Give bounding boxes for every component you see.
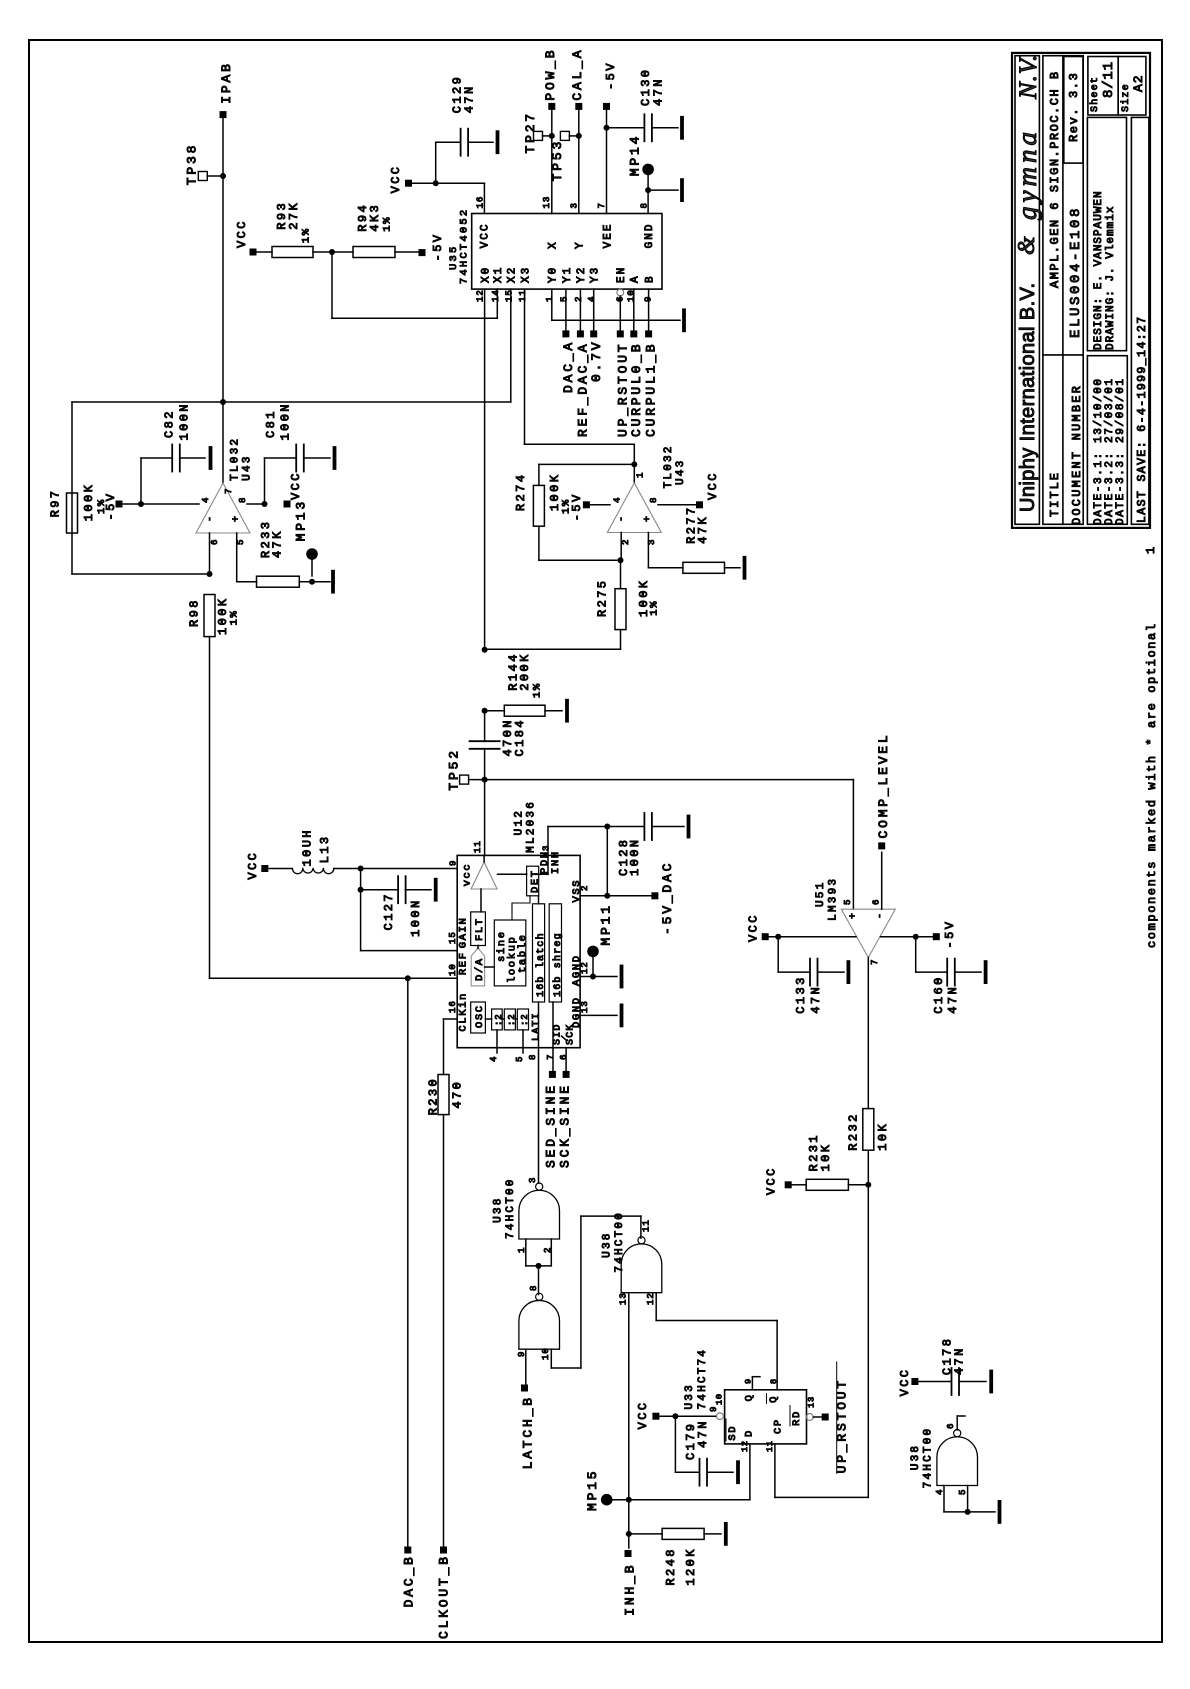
svg-text:DAC_B: DAC_B <box>402 1554 417 1607</box>
svg-text:A2: A2 <box>1131 74 1146 92</box>
svg-text:2: 2 <box>621 539 631 545</box>
svg-text:R98: R98 <box>188 598 202 627</box>
testpoint TP38 <box>198 172 207 181</box>
ground <box>704 1533 721 1535</box>
svg-text:A: A <box>630 274 642 283</box>
svg-text:U43: U43 <box>675 459 687 485</box>
testpoint TP27 <box>534 131 543 140</box>
svg-text:DATE-3.3: 29/08/01: DATE-3.3: 29/08/01 <box>1115 377 1127 525</box>
svg-text:200K: 200K <box>518 652 532 690</box>
svg-text:X: X <box>548 240 560 249</box>
svg-text:4: 4 <box>489 1056 499 1062</box>
capacitor C179 <box>674 1416 676 1472</box>
resistor R230 <box>438 1075 449 1115</box>
svg-text:VEE: VEE <box>602 222 614 248</box>
svg-text:47N: 47N <box>953 1346 967 1375</box>
svg-text:13: 13 <box>542 196 552 209</box>
svg-text:7: 7 <box>224 488 234 494</box>
wire pin8 LATI <box>538 1002 540 1183</box>
wire <box>247 503 265 505</box>
inductor L13 VCC <box>261 865 268 872</box>
capacitor C127 <box>360 869 362 890</box>
wire pin2 VSS <box>580 895 655 897</box>
svg-text:7: 7 <box>870 959 880 965</box>
wire <box>71 402 73 574</box>
resistor R93 <box>272 247 313 258</box>
svg-text:3: 3 <box>528 1177 538 1183</box>
svg-text:Sheet: Sheet <box>1089 76 1101 112</box>
net DAC_A pin5 <box>565 289 567 330</box>
svg-text:OSC: OSC <box>474 1004 486 1028</box>
svg-text:7: 7 <box>546 1054 556 1060</box>
power flag VCC <box>250 249 257 256</box>
net CLKOUT_B <box>440 1547 447 1554</box>
measure point MP14 pin8 <box>642 164 654 176</box>
svg-text:5: 5 <box>236 539 246 545</box>
svg-text:11: 11 <box>473 840 483 853</box>
resistor R231 <box>806 1179 848 1190</box>
svg-text:MP11: MP11 <box>599 903 614 945</box>
svg-text:SCK: SCK <box>566 1023 577 1045</box>
D/A box <box>471 948 484 986</box>
measure point MP13 <box>306 548 318 560</box>
svg-text:C184: C184 <box>513 718 527 756</box>
svg-text:74HCT00: 74HCT00 <box>614 1211 626 1273</box>
svg-text:47K: 47K <box>696 515 710 544</box>
ground <box>818 971 844 973</box>
svg-text:R232: R232 <box>847 1112 861 1150</box>
svg-text:VCC: VCC <box>765 1166 779 1195</box>
svg-text::2: :2 <box>520 1014 530 1026</box>
svg-text:MP13: MP13 <box>294 499 309 541</box>
resistor R248 <box>629 1533 662 1535</box>
svg-text:10K: 10K <box>876 1122 890 1151</box>
svg-text:74HCT4052: 74HCT4052 <box>459 208 471 285</box>
svg-text:gymna: gymna <box>1012 128 1042 220</box>
svg-text:15: 15 <box>448 931 458 944</box>
svg-text:47N: 47N <box>652 77 666 106</box>
svg-text:R97: R97 <box>49 489 63 518</box>
svg-text:+: + <box>232 516 243 522</box>
nand U38b <box>519 1300 560 1349</box>
capacitor C128 <box>607 826 644 828</box>
svg-text:VCC: VCC <box>289 471 303 500</box>
wire inputs to ground <box>943 1486 945 1512</box>
svg-text:14: 14 <box>491 289 501 302</box>
svg-text:8: 8 <box>640 202 650 208</box>
svg-text:CURPUL1_B: CURPUL1_B <box>644 342 659 437</box>
power flag -5V <box>395 251 418 253</box>
svg-text:-: - <box>617 516 628 522</box>
svg-text:components marked with * are o: components marked with * are optional <box>1145 622 1159 948</box>
svg-text:X0: X0 <box>481 266 493 283</box>
svg-text:15: 15 <box>505 289 515 302</box>
svg-text:2: 2 <box>574 296 584 302</box>
svg-text:3: 3 <box>542 845 552 851</box>
ground <box>652 127 678 129</box>
resistor R277 <box>683 562 725 573</box>
svg-text:9: 9 <box>449 860 459 866</box>
FLT box <box>471 912 486 946</box>
capacitor C184 <box>484 711 486 742</box>
wire pin3 <box>647 533 649 568</box>
ground <box>620 1005 624 1025</box>
wire pin13 DGND <box>580 1014 617 1016</box>
svg-text:5: 5 <box>515 1056 525 1062</box>
svg-text:LAST SAVE: 6-4-1999_14:27: LAST SAVE: 6-4-1999_14:27 <box>1136 315 1149 523</box>
ground <box>405 889 431 891</box>
svg-text:VCC: VCC <box>898 1368 912 1397</box>
svg-text:-: - <box>876 913 887 919</box>
svg-text:REF: REF <box>458 951 470 975</box>
svg-text:470: 470 <box>451 1080 465 1109</box>
svg-text:TP53: TP53 <box>550 139 565 181</box>
svg-text:INH_B: INH_B <box>623 1563 638 1616</box>
svg-text:VCC: VCC <box>480 222 492 248</box>
svg-text:MP14: MP14 <box>628 134 643 176</box>
svg-text:TITLE: TITLE <box>1048 471 1062 517</box>
svg-text:10K: 10K <box>819 1143 833 1172</box>
svg-text:Y0: Y0 <box>548 266 560 283</box>
svg-text:INH: INH <box>550 850 562 874</box>
svg-text:table: table <box>517 933 529 973</box>
capacitor C129 <box>435 142 437 183</box>
svg-text:120K: 120K <box>684 1547 698 1585</box>
svg-text:R274: R274 <box>514 473 528 511</box>
power flag -5V pin7 <box>603 103 610 110</box>
capacitor C178 <box>951 1368 953 1395</box>
net COMP_LEVEL <box>881 852 883 909</box>
svg-text:C127: C127 <box>382 892 396 930</box>
svg-text:1: 1 <box>1144 547 1158 554</box>
svg-text:Q: Q <box>768 1395 780 1403</box>
svg-text:R230: R230 <box>427 1077 441 1115</box>
op-amp U43b TL032 <box>607 483 661 533</box>
svg-text:VCC: VCC <box>747 913 761 942</box>
ground <box>725 567 741 569</box>
svg-text:X1: X1 <box>493 266 505 283</box>
op-amp U43a TL032 <box>196 483 250 533</box>
svg-text:CLKOUT_B: CLKOUT_B <box>437 1554 452 1639</box>
svg-text:10: 10 <box>448 963 458 976</box>
svg-text:CP: CP <box>773 1418 785 1434</box>
svg-text:-5V: -5V <box>570 492 584 521</box>
svg-text:1%: 1% <box>532 682 544 698</box>
ground <box>648 189 678 191</box>
svg-text:C82: C82 <box>163 409 177 438</box>
svg-text:16b shreg: 16b shreg <box>552 932 564 997</box>
net -5V_DAC <box>651 892 658 899</box>
svg-text::2: :2 <box>494 1014 504 1026</box>
svg-text:100N: 100N <box>279 402 293 440</box>
svg-text:100N: 100N <box>178 402 192 440</box>
testpoint TP52 <box>460 775 469 784</box>
svg-text:12: 12 <box>740 1440 750 1452</box>
svg-text:DGND: DGND <box>571 996 583 1028</box>
svg-text:Y2: Y2 <box>576 266 588 283</box>
wire pin2 <box>620 533 622 561</box>
svg-text:13: 13 <box>619 1292 629 1305</box>
svg-text:U51: U51 <box>815 881 827 907</box>
svg-text:0.7V: 0.7V <box>589 340 604 382</box>
wire X0 <box>484 289 486 650</box>
svg-text:47K: 47K <box>271 529 285 558</box>
wire pin6 <box>209 533 211 574</box>
measure point MP11 <box>587 946 599 958</box>
resistor R232 <box>863 1109 874 1151</box>
ground <box>304 457 330 459</box>
svg-text:6: 6 <box>872 899 882 905</box>
power flag VCC <box>785 1181 792 1188</box>
IC U35 74HCT4052 <box>472 214 662 290</box>
svg-text:9: 9 <box>709 1406 719 1412</box>
svg-text:13: 13 <box>807 1396 817 1408</box>
power flag VCC <box>284 501 291 508</box>
svg-text:Q: Q <box>744 1393 756 1401</box>
sine lookup table box <box>494 920 526 986</box>
svg-text:-5V: -5V <box>604 61 618 90</box>
svg-text:47N: 47N <box>463 84 477 113</box>
svg-text:11: 11 <box>518 289 528 302</box>
svg-text:47N: 47N <box>809 985 823 1014</box>
svg-text:DOCUMENT NUMBER: DOCUMENT NUMBER <box>1070 384 1084 525</box>
svg-text:C160: C160 <box>932 975 946 1013</box>
svg-text:5: 5 <box>958 1489 968 1495</box>
resistor R233 <box>257 576 300 587</box>
svg-text:B: B <box>645 274 657 283</box>
net UP_RSTOUT pin6 EN <box>617 289 624 296</box>
net 0.7V pin4 <box>593 289 595 330</box>
svg-text:AMPL.GEN 6 SIGN.PROC.CH B: AMPL.GEN 6 SIGN.PROC.CH B <box>1048 70 1062 288</box>
net CAL_A pin3 <box>575 103 582 110</box>
svg-text:CURPUL0_B: CURPUL0_B <box>629 342 644 437</box>
capacitor C133 <box>777 937 779 972</box>
wire pin3 PDN C128 <box>547 827 549 856</box>
svg-text:U12: U12 <box>513 809 525 835</box>
wire Y0 to ground <box>551 289 553 320</box>
wire output pin7 <box>867 958 869 1109</box>
power flag -5V <box>583 501 590 508</box>
svg-text:1%: 1% <box>382 216 394 232</box>
wire to U33 D <box>629 1499 750 1501</box>
capacitor C81 <box>264 458 266 504</box>
svg-text:1%: 1% <box>649 600 661 616</box>
net SED_SINE pin7 SID <box>552 1002 554 1070</box>
svg-text:+: + <box>849 913 860 919</box>
svg-text:C81: C81 <box>264 409 278 438</box>
ground <box>331 572 335 592</box>
comparator U51 LM393 <box>841 909 895 957</box>
svg-text:1: 1 <box>636 472 646 478</box>
svg-text:4: 4 <box>613 497 623 503</box>
svg-text:EN: EN <box>616 266 628 283</box>
svg-text:-: - <box>206 516 217 522</box>
svg-text:8: 8 <box>528 1054 538 1060</box>
svg-text::2: :2 <box>507 1014 517 1026</box>
svg-text:8: 8 <box>238 497 248 503</box>
ground <box>707 1471 733 1473</box>
svg-text:DRAWING: J. Vlemmix: DRAWING: J. Vlemmix <box>1105 206 1117 350</box>
svg-text:N.V.: N.V. <box>1015 54 1042 100</box>
svg-text:74HCT00: 74HCT00 <box>922 1427 934 1489</box>
svg-text:-5V: -5V <box>104 492 118 521</box>
svg-text:1%: 1% <box>301 227 313 243</box>
wire <box>590 504 610 506</box>
ground <box>468 141 493 143</box>
resistor R275 <box>620 560 622 589</box>
svg-text:U38: U38 <box>910 1444 922 1470</box>
svg-text:GND: GND <box>644 222 656 248</box>
svg-text:1%: 1% <box>229 610 241 626</box>
svg-text:VCC: VCC <box>636 1400 650 1429</box>
svg-text:TP27: TP27 <box>523 111 538 153</box>
svg-text:VCC: VCC <box>235 219 249 248</box>
svg-text:SD: SD <box>727 1425 739 1441</box>
svg-text:12: 12 <box>475 289 485 302</box>
svg-text:8: 8 <box>649 497 659 503</box>
svg-text:-5V: -5V <box>943 920 957 949</box>
svg-text:R248: R248 <box>664 1547 678 1585</box>
svg-text:10UH: 10UH <box>301 828 315 866</box>
net UP_RSTOUT <box>813 1416 821 1418</box>
ground <box>955 971 981 973</box>
wire X3 <box>524 289 526 444</box>
svg-text:vcc: vcc <box>462 863 474 887</box>
testpoint TP53 <box>560 131 569 140</box>
svg-text:U33: U33 <box>684 1383 696 1409</box>
svg-text:5: 5 <box>559 296 569 302</box>
svg-text:MP15: MP15 <box>585 1469 600 1511</box>
resistor R144 <box>485 710 505 712</box>
ground <box>620 967 624 987</box>
svg-text:12: 12 <box>646 1292 656 1305</box>
svg-text:10: 10 <box>627 289 637 302</box>
svg-text:LM393: LM393 <box>827 877 839 921</box>
power flag VCC pin8 <box>762 933 769 940</box>
svg-text:LATCH_B: LATCH_B <box>521 1395 536 1469</box>
svg-text:CLKin: CLKin <box>458 992 470 1032</box>
svg-text:ELUS004-E108: ELUS004-E108 <box>1068 206 1084 338</box>
net CURPUL0_B pin10 <box>633 289 635 330</box>
ground <box>652 826 684 828</box>
svg-text:CAL_A: CAL_A <box>570 48 585 101</box>
wire pin16 CLKin <box>444 1018 458 1020</box>
svg-text:Uniphy International B.V.: Uniphy International B.V. <box>1017 283 1039 512</box>
IC U12 ML2036 <box>457 855 580 1047</box>
wire <box>209 637 211 979</box>
resistor R94 <box>353 247 395 258</box>
svg-text:7: 7 <box>597 202 607 208</box>
svg-text:TP38: TP38 <box>185 143 200 185</box>
svg-text:VCC: VCC <box>389 165 403 194</box>
svg-text:8: 8 <box>529 1285 539 1291</box>
svg-text:POW_B: POW_B <box>543 48 558 101</box>
wire node out1 <box>72 401 511 403</box>
svg-text:16b latch: 16b latch <box>535 932 547 997</box>
svg-text:AGND: AGND <box>571 954 583 986</box>
OSC box <box>471 1002 486 1033</box>
svg-text:&: & <box>1014 236 1040 255</box>
svg-text:8/11: 8/11 <box>1101 61 1117 98</box>
net IPAB <box>220 111 227 118</box>
svg-text:FLT: FLT <box>474 917 486 941</box>
svg-text:6: 6 <box>559 1054 569 1060</box>
svg-text:ML2036: ML2036 <box>525 800 537 853</box>
svg-text:COMP_LEVEL: COMP_LEVEL <box>876 732 891 838</box>
svg-text:100N: 100N <box>628 838 642 876</box>
buffer triangle <box>471 862 497 889</box>
resistor R274 <box>539 463 634 465</box>
ground <box>959 1381 986 1383</box>
net SCK_SINE pin6 SCK <box>565 1048 567 1071</box>
svg-text:SED_SINE: SED_SINE <box>544 1083 559 1168</box>
wire pin10 to U38c out <box>550 1349 552 1368</box>
wire <box>525 1239 527 1266</box>
power flag -5V <box>116 501 123 508</box>
svg-text:D/A: D/A <box>474 957 486 981</box>
net DAC_B <box>404 1547 411 1554</box>
svg-text:74HCT00: 74HCT00 <box>505 1177 517 1239</box>
power flag VCC C178 <box>911 1378 918 1385</box>
net LATCH_B <box>525 1349 527 1384</box>
svg-text:X3: X3 <box>520 266 532 283</box>
svg-text:DAC_A: DAC_A <box>561 340 576 393</box>
svg-text:27K: 27K <box>287 201 301 230</box>
svg-text:VSS: VSS <box>571 879 583 903</box>
svg-text:RD: RD <box>791 1410 803 1426</box>
svg-text:C133: C133 <box>794 975 808 1013</box>
16b latch box <box>533 904 545 1002</box>
power flag VCC SD pin10 <box>652 1413 659 1420</box>
svg-text:VCC: VCC <box>246 851 260 880</box>
svg-text:TP52: TP52 <box>447 748 462 790</box>
svg-text:DESIGN: E. VANSPAUWEN: DESIGN: E. VANSPAUWEN <box>1093 190 1105 350</box>
svg-text:11: 11 <box>642 1219 652 1232</box>
capacitor C160 <box>915 937 917 972</box>
divider boxes <box>492 1009 503 1030</box>
svg-text:47N: 47N <box>946 985 960 1014</box>
svg-text:VCC: VCC <box>706 471 720 500</box>
wire pin12 AGND <box>580 976 617 978</box>
wire DAC_B <box>407 978 409 1546</box>
svg-text:L13: L13 <box>318 834 332 863</box>
wire to comparator <box>485 779 854 781</box>
svg-text:U43: U43 <box>241 454 253 480</box>
svg-text:Rev. 3.3: Rev. 3.3 <box>1067 72 1081 142</box>
resistor R97 <box>67 493 78 533</box>
svg-text:10: 10 <box>715 1393 725 1405</box>
wire pin12 from U33 <box>655 1293 657 1321</box>
svg-text:LATI: LATI <box>532 1012 543 1041</box>
16b shreg box <box>549 904 561 1002</box>
svg-text:Y3: Y3 <box>590 266 602 283</box>
capacitor C82 <box>140 458 142 504</box>
title block <box>1012 53 1150 528</box>
svg-text:R275: R275 <box>596 579 610 617</box>
svg-text:SID: SID <box>553 1023 564 1045</box>
svg-text:IPAB: IPAB <box>219 61 234 103</box>
svg-text:1: 1 <box>545 296 555 302</box>
wire X1 net <box>331 252 333 318</box>
svg-text:GAIN: GAIN <box>458 917 470 949</box>
svg-text:SCK_SINE: SCK_SINE <box>558 1083 573 1168</box>
pin Qbar to U38c <box>776 1321 778 1390</box>
svg-text:16: 16 <box>448 1000 458 1013</box>
DET box <box>527 866 539 896</box>
pin CP 11 <box>774 1444 776 1498</box>
svg-text:TL032: TL032 <box>663 444 675 488</box>
wire <box>222 119 224 402</box>
